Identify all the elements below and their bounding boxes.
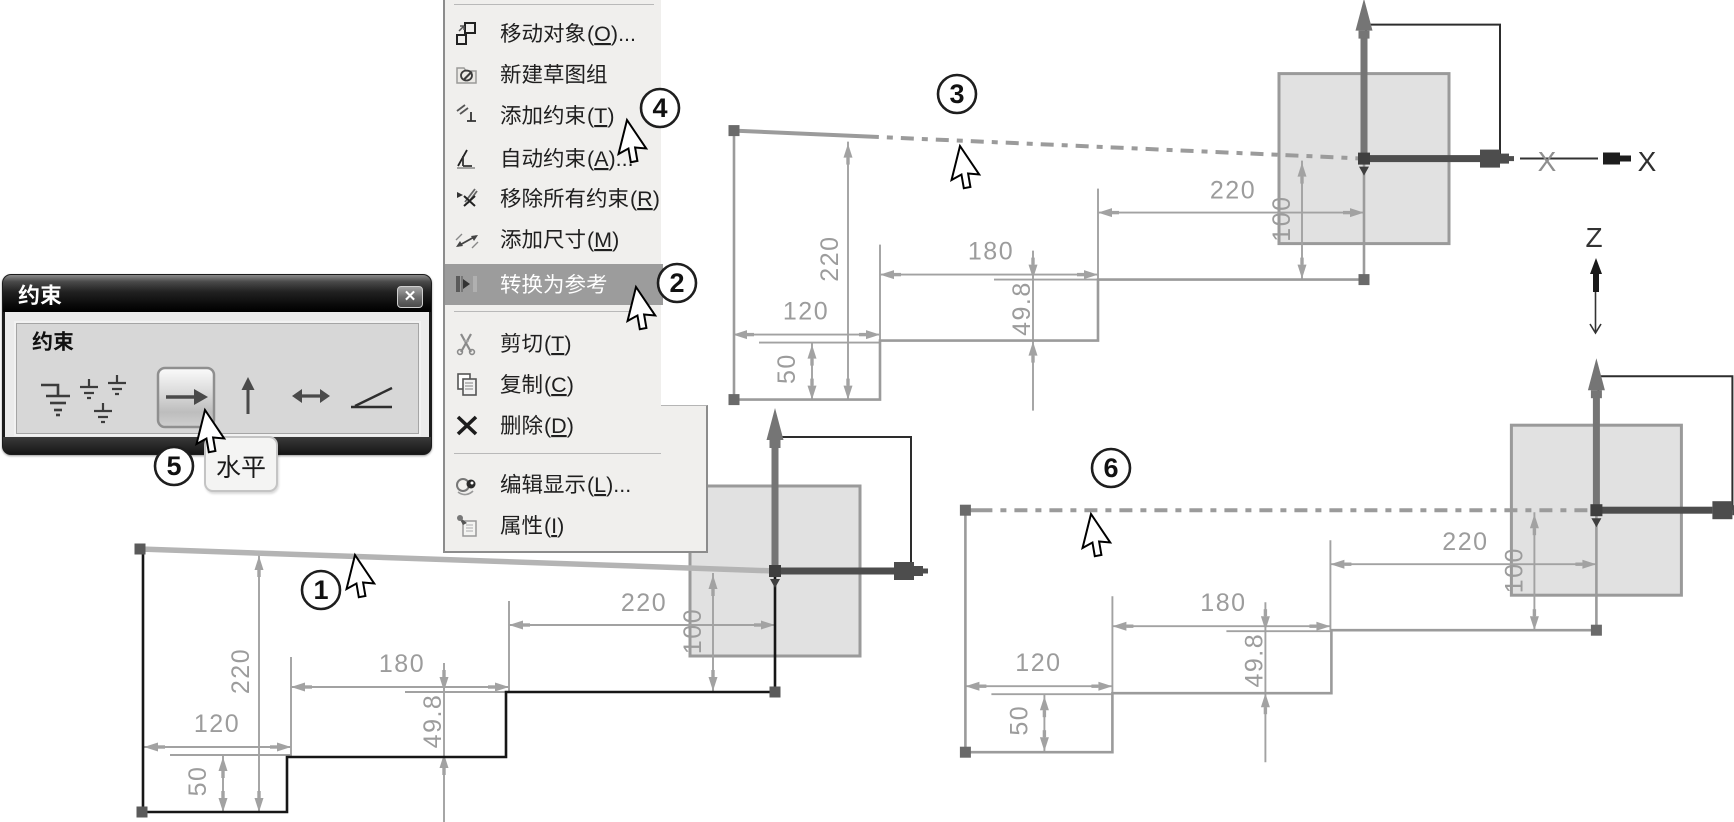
dimension 220 vertical bbox=[816, 142, 853, 400]
thick Y axis arrow bbox=[767, 408, 784, 571]
dimension 220 horizontal bbox=[1330, 528, 1596, 630]
dialog inner group panel bbox=[16, 323, 419, 434]
svg-text:50: 50 bbox=[773, 353, 801, 384]
dimension 180 bbox=[880, 238, 1098, 345]
sketch 3 bbox=[729, 0, 1515, 411]
dimension 49.8 bbox=[994, 251, 1099, 411]
sketch 3 X datum axis line bbox=[1520, 158, 1598, 160]
dimension 180 bbox=[291, 650, 509, 757]
mouse cursor bbox=[1081, 514, 1115, 559]
svg-text:(A)...: (A)... bbox=[587, 147, 634, 171]
svg-text:(R): (R) bbox=[630, 187, 660, 211]
callout circle 2 bbox=[658, 264, 696, 302]
svg-text:Z: Z bbox=[1585, 222, 1602, 253]
thick X axis arrow bbox=[1596, 501, 1734, 519]
WCS gray square bbox=[1511, 425, 1681, 595]
dimension 120 bbox=[144, 710, 291, 752]
dimension 100 bbox=[1500, 512, 1539, 630]
dimension 49.8 bbox=[405, 663, 510, 822]
menu separator bbox=[454, 311, 654, 312]
menu item 自动约束 bbox=[445, 138, 663, 179]
约束 dialog window bbox=[2, 274, 432, 455]
icon: horizontal double arrow constraint bbox=[292, 389, 330, 403]
sketch 3 dashed reference line (slanted) bbox=[734, 131, 1364, 159]
svg-text:49.8: 49.8 bbox=[419, 694, 447, 749]
context menu panel (narrow upper part) bbox=[443, 0, 661, 553]
icon: vertical constraint (up arrow) bbox=[242, 377, 255, 414]
svg-text:(M): (M) bbox=[587, 228, 619, 252]
dimension 50 bbox=[759, 343, 880, 400]
mouse cursor bbox=[950, 146, 984, 191]
svg-text:120: 120 bbox=[1015, 649, 1061, 677]
sketch 3 profile (gray) bbox=[734, 131, 1364, 400]
dimension 220 horizontal bbox=[1098, 177, 1364, 279]
svg-text:220: 220 bbox=[227, 648, 255, 694]
svg-text:50: 50 bbox=[1005, 705, 1033, 736]
thick Y axis arrow bbox=[1356, 0, 1373, 159]
origin marker bbox=[1358, 153, 1370, 165]
dimension 100 bbox=[679, 573, 718, 691]
sketch 3 vertex handles bbox=[729, 125, 740, 136]
mouse cursor bbox=[345, 555, 379, 600]
menu item 移除所有约束 bbox=[445, 178, 663, 219]
svg-text:100: 100 bbox=[679, 608, 707, 654]
thick X axis arrow bbox=[1364, 150, 1514, 168]
mouse cursor bbox=[617, 120, 651, 165]
dimension 180 bbox=[1112, 589, 1330, 696]
svg-text:220: 220 bbox=[816, 235, 844, 281]
svg-text:120: 120 bbox=[783, 298, 829, 326]
dimension 49.8 bbox=[1226, 602, 1331, 762]
callout circle 3 bbox=[938, 75, 976, 113]
constraint icons row bbox=[17, 324, 416, 431]
sketch 1 selected top line (thick light gray) bbox=[140, 549, 775, 571]
dimension 100 bbox=[1268, 161, 1307, 279]
menu separator bbox=[454, 453, 704, 454]
thick X axis arrow bbox=[775, 562, 928, 580]
dimension 120 bbox=[733, 298, 880, 340]
thick Y axis arrow bbox=[1588, 358, 1605, 510]
origin marker bbox=[1590, 504, 1602, 516]
callout circle 6 bbox=[1092, 449, 1130, 487]
dialog bottom dark strip bbox=[3, 437, 431, 454]
sketch 6 bbox=[960, 358, 1734, 762]
icon: uniform scale / multi-ground constraint bbox=[80, 375, 126, 422]
menu item 新建草图组 bbox=[445, 54, 663, 95]
menu item 编辑显示 bbox=[445, 464, 663, 505]
dialog body bbox=[5, 312, 429, 437]
svg-text:220: 220 bbox=[1210, 177, 1256, 205]
icon: fixed constraint (ground) bbox=[41, 385, 70, 415]
menu item 剪切 bbox=[445, 323, 663, 364]
dimension 220 horizontal bbox=[509, 589, 775, 691]
callout circle 1 bbox=[302, 571, 340, 609]
svg-text:100: 100 bbox=[1268, 195, 1296, 241]
sketch 6 Z datum axis line with down arrowhead bbox=[1595, 292, 1597, 332]
svg-text:220: 220 bbox=[621, 589, 667, 617]
menu item 复制 bbox=[445, 364, 663, 405]
dimension 220 vertical bbox=[227, 554, 264, 812]
menu item 添加尺寸 bbox=[445, 219, 663, 260]
dimension 120 bbox=[965, 649, 1112, 691]
menu item 属性 bbox=[445, 505, 663, 546]
svg-text:49.8: 49.8 bbox=[1240, 633, 1268, 688]
svg-text:(T): (T) bbox=[587, 104, 614, 128]
origin marker bbox=[769, 565, 781, 577]
sketch 1 bbox=[135, 408, 929, 822]
dimension 50 bbox=[170, 755, 291, 812]
menu item 转换为参考 (highlighted) bbox=[445, 264, 663, 305]
svg-text:(L)...: (L)... bbox=[587, 473, 631, 497]
thin corner rectangle bbox=[1366, 25, 1500, 159]
context menu separator (top, partial item above) bbox=[454, 4, 654, 5]
svg-text:X: X bbox=[1538, 146, 1557, 177]
svg-text:120: 120 bbox=[194, 710, 240, 738]
svg-text:(C): (C) bbox=[544, 373, 574, 397]
svg-text:49.8: 49.8 bbox=[1008, 281, 1036, 336]
svg-text:180: 180 bbox=[968, 238, 1014, 266]
sketch 3 X axis black arrow glyph bbox=[1603, 153, 1620, 165]
svg-text:(I): (I) bbox=[544, 514, 564, 538]
horizontal constraint button (pressed) bbox=[158, 368, 214, 427]
menu item 移动对象 bbox=[445, 13, 663, 54]
menu item 删除 bbox=[445, 405, 663, 446]
sketch 6 vertex handles bbox=[960, 505, 971, 516]
svg-text:(O)...: (O)... bbox=[587, 22, 636, 46]
sketch 1 vertex handles bbox=[135, 544, 146, 555]
context menu panel (wider lower part) bbox=[661, 405, 708, 553]
dialog title bar bbox=[3, 275, 431, 312]
sketch 6 dashed reference line (horizontal) bbox=[965, 508, 1596, 512]
callout circle 4 bbox=[641, 89, 679, 127]
svg-text:(D): (D) bbox=[544, 414, 574, 438]
thin corner rectangle bbox=[1598, 376, 1732, 510]
WCS gray square bbox=[1279, 74, 1449, 244]
menu item 添加约束 bbox=[445, 95, 663, 136]
sketch 6 profile (gray) bbox=[965, 510, 1596, 752]
mouse cursor bbox=[626, 287, 660, 332]
dialog close button bbox=[397, 286, 423, 308]
icon: angle constraint bbox=[351, 388, 392, 407]
svg-text:50: 50 bbox=[184, 766, 212, 797]
svg-text:180: 180 bbox=[1200, 589, 1246, 617]
svg-text:100: 100 bbox=[1500, 547, 1528, 593]
mouse cursor bbox=[195, 410, 229, 455]
svg-text:220: 220 bbox=[1442, 528, 1488, 556]
dimension 50 bbox=[991, 694, 1112, 751]
callout circle 5 bbox=[155, 447, 193, 485]
sketch 6 Z axis black arrow glyph bbox=[1590, 258, 1602, 282]
WCS gray square bbox=[690, 486, 860, 656]
thin corner rectangle bbox=[777, 437, 911, 571]
svg-text:X: X bbox=[1638, 146, 1657, 177]
svg-text:(T): (T) bbox=[544, 332, 571, 356]
sketch 1 profile (black) bbox=[143, 549, 775, 812]
svg-text:180: 180 bbox=[379, 650, 425, 678]
tooltip 水平 bbox=[204, 436, 278, 492]
